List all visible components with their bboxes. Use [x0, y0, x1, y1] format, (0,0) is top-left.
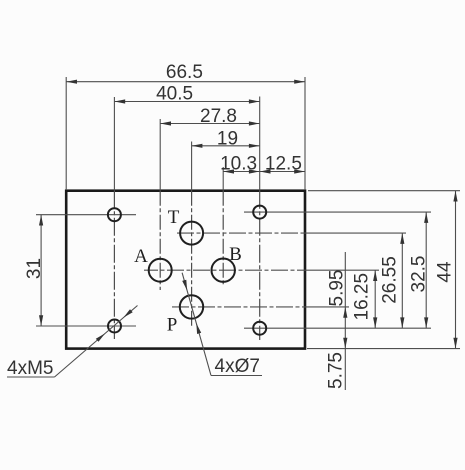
extension line A column top [159, 119, 161, 191]
extension line B column top [222, 167, 224, 191]
svg-text:4xM5: 4xM5 [7, 358, 53, 379]
port A [149, 259, 172, 282]
centerline A column [159, 191, 161, 290]
centerline T/P column [191, 191, 193, 328]
port B [212, 259, 235, 282]
bolt hole TR [253, 206, 266, 219]
centerline right bolt column [259, 191, 261, 340]
dimension 12.5 [260, 154, 305, 175]
extension line right bolt column top [259, 97, 261, 191]
extension line right edge top [304, 77, 306, 190]
port T [180, 222, 203, 245]
extension line plate top right [308, 190, 460, 192]
svg-text:A: A [134, 246, 148, 267]
centerline left bolt column [113, 191, 115, 339]
svg-text:31: 31 [24, 258, 45, 279]
dimension 26.55 [379, 233, 404, 328]
extension line T/P column top [191, 142, 193, 191]
svg-text:40.5: 40.5 [156, 83, 193, 104]
svg-text:26.55: 26.55 [379, 256, 400, 304]
svg-text:27.8: 27.8 [200, 106, 237, 127]
centerline A/B row [144, 269, 304, 271]
dimension 5.95 and 5.75 shared line [325, 252, 347, 390]
svg-text:10.3: 10.3 [220, 154, 257, 175]
dimension 66.5 [66, 62, 305, 84]
extension line left bolt column top [113, 97, 115, 191]
port P [180, 295, 203, 318]
dimension 16.25 [351, 270, 377, 328]
dimension 10.3 [220, 154, 260, 175]
dimension 27.8 [160, 106, 260, 127]
svg-text:16.25: 16.25 [351, 273, 372, 321]
extension line plate bottom right [307, 348, 460, 350]
callout 4xO7 [182, 273, 262, 377]
svg-text:T: T [168, 207, 180, 228]
centerline B column [222, 191, 224, 286]
dimension 32.5 [408, 212, 429, 328]
centerline TL bolt row [36, 214, 136, 216]
centerline BR bolt row [244, 327, 431, 329]
dimension 31 [24, 215, 45, 326]
svg-text:66.5: 66.5 [166, 62, 203, 83]
svg-text:44: 44 [434, 261, 455, 283]
centerline P row [172, 306, 304, 308]
dimension 19 [192, 129, 260, 150]
centerline BL bolt row [36, 325, 136, 327]
extension line left edge top [65, 77, 67, 190]
svg-text:P: P [167, 315, 178, 336]
dimension 44 [434, 191, 457, 349]
svg-text:5.95: 5.95 [326, 270, 347, 307]
svg-text:32.5: 32.5 [408, 256, 429, 293]
plate outline [66, 191, 305, 349]
centerline T row [177, 232, 304, 234]
svg-text:19: 19 [217, 129, 238, 150]
svg-text:B: B [229, 244, 242, 265]
svg-text:5.75: 5.75 [325, 352, 346, 389]
bolt hole BR [253, 322, 266, 335]
bolt hole TL [108, 208, 121, 221]
centerline TR bolt row [244, 211, 431, 213]
svg-text:12.5: 12.5 [265, 154, 302, 175]
callout 4xM5 [7, 306, 138, 380]
bolt hole BL [108, 320, 121, 333]
svg-text:4xØ7: 4xØ7 [215, 356, 260, 377]
dimension 40.5 [114, 83, 259, 104]
